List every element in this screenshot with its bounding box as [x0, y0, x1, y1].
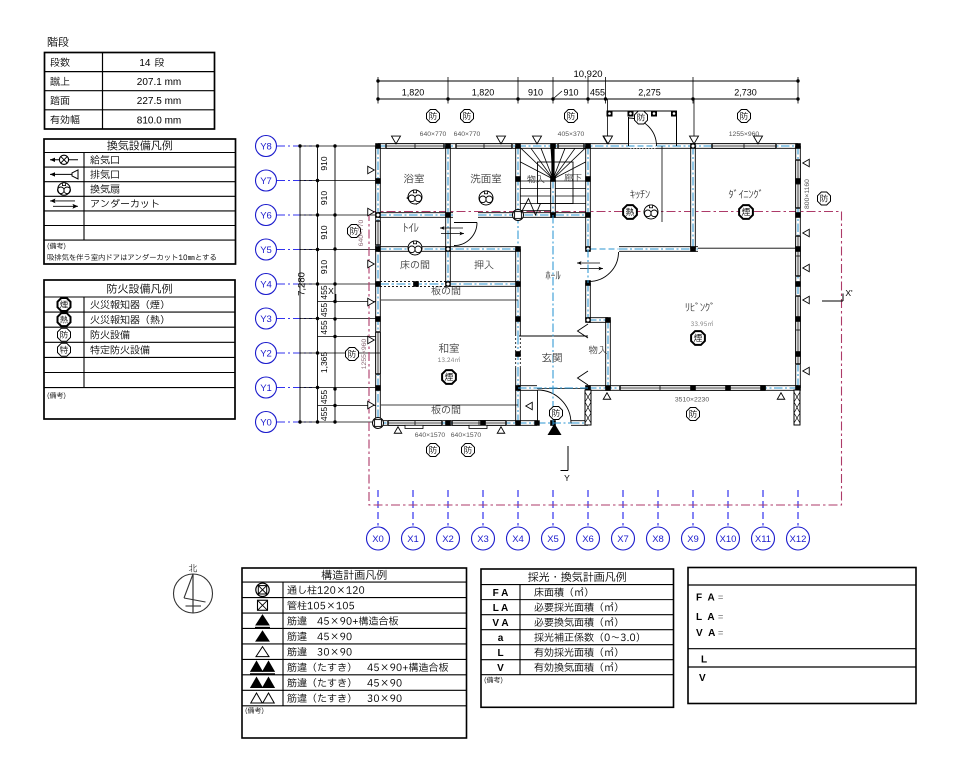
smoke detector dining — [739, 205, 753, 219]
washitsu genkan fusuma dotted — [515, 338, 517, 368]
svg-text:X12: X12 — [790, 534, 807, 545]
svg-text:Y6: Y6 — [260, 210, 272, 221]
ventilation legend table 換気設備凡例 — [44, 139, 236, 264]
undercut symbol アンダーカット — [50, 200, 75, 202]
svg-text:Y3: Y3 — [260, 314, 272, 325]
closet north wall — [588, 318, 608, 322]
svg-text:V A: V A — [696, 628, 717, 639]
room label キッチン — [630, 190, 650, 199]
remark 備考 ventilation — [48, 243, 66, 250]
tokonoma wall X2 — [446, 249, 450, 284]
hall kitchen door opening — [591, 247, 619, 252]
svg-text:L A: L A — [493, 603, 509, 614]
brace symbols 筋違 — [256, 615, 269, 625]
daylight-ventilation legend table 採光・換気計画凡例 — [481, 569, 674, 707]
svg-text:207.1 mm: 207.1 mm — [137, 77, 181, 88]
bath-washroom wall X2 — [446, 146, 450, 215]
brace markers top open down-triangles — [392, 136, 401, 144]
svg-text:X: X — [328, 286, 334, 296]
dimension drop lines with open arrows — [607, 99, 609, 136]
svg-text:X6: X6 — [582, 534, 594, 545]
exterior wall top Y8 — [378, 144, 798, 148]
kitchen dining wall X9 — [691, 146, 695, 249]
living area 33.95m2 — [691, 321, 713, 326]
svg-text:X3: X3 — [477, 534, 489, 545]
dining living boundary line — [698, 247, 798, 249]
svg-text:640×1570: 640×1570 — [451, 432, 482, 439]
structural plan legend table 構造計画凡例 — [242, 568, 467, 738]
genkan south wall stub — [518, 386, 537, 390]
svg-text:L: L — [701, 655, 707, 666]
svg-text:1,365: 1,365 — [319, 352, 329, 374]
stairs break zigzag — [521, 199, 541, 216]
svg-text:X9: X9 — [687, 534, 699, 545]
undercut arrow toilet — [440, 227, 463, 229]
svg-text:227.5 mm: 227.5 mm — [137, 96, 181, 107]
svg-text:910: 910 — [528, 88, 543, 98]
room label 物入 closet — [589, 346, 607, 355]
bath windows 640x770 — [386, 144, 444, 149]
washroom door fold mark — [407, 192, 417, 205]
svg-text:X': X' — [845, 288, 853, 298]
room label ダイニング — [729, 189, 761, 198]
svg-text:X8: X8 — [652, 534, 664, 545]
vent fan toilet — [408, 241, 422, 255]
room label 物入 stairs — [527, 175, 544, 183]
back door porch — [611, 110, 677, 112]
svg-text:1,820: 1,820 — [472, 88, 495, 98]
svg-text:X4: X4 — [512, 534, 524, 545]
genkan hall boundary line — [519, 335, 588, 337]
svg-text:910: 910 — [319, 260, 329, 274]
svg-text:14: 14 — [139, 58, 151, 69]
stairs treads — [521, 180, 552, 182]
second floor outline magenta dash-dot — [369, 212, 842, 506]
room label 玄関 — [542, 353, 562, 363]
svg-text:640×770: 640×770 — [454, 131, 481, 138]
svg-text:405×370: 405×370 — [558, 131, 585, 138]
stairs winder fan lines — [521, 148, 553, 179]
stair window 405x370 — [558, 144, 584, 149]
svg-text:640×770: 640×770 — [420, 131, 447, 138]
X grid bubbles X0-X12 — [377, 490, 379, 526]
hall east wall X6 lower — [586, 283, 590, 320]
stud-post symbol 管柱 — [258, 600, 268, 610]
room label 板の間 north — [431, 286, 460, 295]
svg-text:1255×960: 1255×960 — [361, 339, 368, 370]
svg-text:X7: X7 — [617, 534, 629, 545]
grid centerline dash entrance door gap — [537, 422, 571, 424]
calc table FA LA VA — [688, 568, 916, 704]
exterior wall right X12 — [796, 146, 800, 388]
svg-text:X11: X11 — [755, 534, 771, 545]
svg-text:F A: F A — [493, 588, 509, 599]
svg-text:X0: X0 — [372, 534, 384, 545]
svg-text:455: 455 — [590, 88, 605, 98]
exhaust symbol 排気口 — [50, 173, 72, 175]
top dimension line 10,920 — [378, 80, 798, 82]
undercut arrow hall — [577, 262, 600, 264]
washitsu area 13.24m2 — [438, 357, 460, 362]
Y grid bubbles Y0-Y8 — [256, 136, 277, 157]
svg-text:X2: X2 — [442, 534, 454, 545]
svg-text:Y8: Y8 — [260, 141, 272, 152]
heat detector kitchen — [623, 205, 637, 219]
room label トイレ — [404, 223, 418, 232]
svg-text:910: 910 — [319, 191, 329, 205]
entrance door arc — [538, 390, 572, 424]
tokonoma open boundary dotted — [380, 281, 448, 283]
svg-text:V: V — [699, 673, 706, 684]
stairwell void rectangle — [538, 162, 574, 204]
room label 押入 — [474, 260, 493, 269]
brace markers misc — [526, 402, 532, 410]
section marker Y — [567, 446, 569, 471]
grid centerline dash X5 through genkan — [552, 215, 554, 426]
svg-text:455: 455 — [319, 390, 329, 404]
remark 備考 structural — [246, 707, 264, 714]
grid centerline dash fusuma opening X4 — [517, 336, 519, 368]
vent fan symbol 換気扇 — [58, 183, 70, 195]
svg-text:455: 455 — [319, 320, 329, 334]
itanoma edge lines — [381, 299, 518, 301]
hatched porch posts — [585, 390, 591, 425]
entrance south wall Y0 — [518, 421, 537, 425]
grid centerline dash corridor opening X4 — [517, 215, 519, 249]
closet bifold marks — [578, 324, 589, 338]
svg-text:1,820: 1,820 — [402, 88, 425, 98]
svg-text:X1: X1 — [407, 534, 419, 545]
exterior wall left X0 — [376, 146, 380, 423]
east wall windows 800x1160 — [796, 160, 801, 208]
svg-text:2,730: 2,730 — [734, 88, 757, 98]
interior wall Y5 washitsu north — [378, 247, 518, 251]
fire shutter marks 防 — [427, 110, 440, 123]
stairs center wall X5 — [551, 148, 554, 180]
room label 浴室 — [404, 174, 424, 184]
exterior wall bottom washitsu Y0 — [378, 421, 518, 425]
svg-text:F A: F A — [696, 593, 716, 604]
washitsu south windows 640x1570 — [388, 421, 442, 426]
svg-text:810.0 mm: 810.0 mm — [137, 115, 181, 126]
west wall window 640x770 — [376, 221, 381, 245]
svg-text:910: 910 — [563, 88, 578, 98]
svg-text:V: V — [497, 663, 504, 674]
svg-text:640×1570: 640×1570 — [415, 432, 446, 439]
kitchen south wall Y5 — [619, 247, 698, 251]
svg-text:a: a — [498, 633, 504, 644]
svg-text:=: = — [718, 628, 723, 638]
section marker X prime — [822, 300, 843, 302]
back door arc — [629, 118, 657, 146]
stair spec table — [45, 53, 215, 130]
through-post symbols in plan — [513, 210, 524, 221]
living south window 3510x2230 — [620, 386, 765, 391]
svg-text:L: L — [497, 648, 503, 659]
grid centerline dash Y1 through genkan — [518, 387, 588, 389]
room label 床の間 — [400, 260, 429, 269]
exterior wall living south Y1 — [588, 386, 798, 390]
svg-text:X10: X10 — [720, 534, 737, 545]
through-post symbol 通し柱 — [256, 583, 269, 596]
svg-text:=: = — [718, 593, 723, 603]
toilet door arc — [454, 223, 477, 246]
smoke detector living — [691, 331, 705, 345]
svg-text:Y2: Y2 — [260, 348, 272, 359]
remark 備考 fire — [48, 392, 66, 399]
svg-text:L A: L A — [696, 612, 716, 623]
washitsu south window sill bumps — [405, 425, 423, 428]
svg-text:640×770: 640×770 — [358, 219, 365, 246]
brace markers east wall open left-triangles — [803, 159, 809, 167]
closet east wall — [606, 320, 610, 388]
vent fan bath — [408, 190, 422, 204]
room label リビング — [686, 302, 713, 311]
grid centerline dash X6 door gap — [587, 249, 589, 283]
svg-text:Y7: Y7 — [260, 176, 272, 187]
vent fan washroom — [479, 191, 493, 205]
svg-text:Y4: Y4 — [260, 279, 272, 290]
washroom window 640x770 — [456, 144, 512, 149]
svg-text:Y1: Y1 — [260, 383, 272, 394]
west wall window 1255x960 — [376, 332, 381, 374]
toilet east wall X2 — [446, 215, 450, 249]
hall east wall X6 upper — [586, 146, 590, 249]
room label ホール — [546, 271, 561, 280]
entrance west wall X4 — [516, 284, 520, 336]
svg-text:V A: V A — [492, 618, 508, 629]
svg-text:455: 455 — [319, 303, 329, 317]
smoke detector washitsu — [442, 370, 456, 384]
svg-text:Y0: Y0 — [260, 417, 272, 428]
left extension lines — [300, 145, 376, 147]
stair spec table title 階段 — [48, 37, 69, 47]
svg-text:3510×2230: 3510×2230 — [675, 397, 709, 404]
svg-text:455: 455 — [319, 407, 329, 421]
svg-text:Y: Y — [564, 473, 570, 483]
room label 和室 — [439, 343, 459, 353]
kitchen counter line — [661, 146, 663, 222]
top dimension chain — [378, 98, 798, 100]
interior wall Y6 corridor — [378, 213, 453, 217]
vent fan kitchen — [644, 205, 658, 219]
left sub dimension chain 455 — [334, 146, 336, 422]
svg-text:910: 910 — [319, 225, 329, 239]
dining window 1255x960 — [712, 144, 776, 149]
svg-text:X5: X5 — [547, 534, 559, 545]
left dimension chain 910 — [317, 146, 319, 422]
remark 備考 daylight — [485, 677, 503, 684]
entrance door hinge post — [534, 420, 539, 425]
fire-equipment legend table 防火設備凡例 — [44, 280, 235, 419]
left overall dimension 7,280 — [299, 146, 301, 422]
brace markers left open right-triangles — [368, 166, 374, 174]
compass north arrow 北 — [189, 564, 197, 572]
svg-text:910: 910 — [319, 156, 329, 170]
stairs west wall X4 — [516, 146, 520, 215]
kitchen back door opening — [629, 144, 657, 149]
small joint rings — [376, 213, 380, 217]
entrance mark filled triangle — [548, 424, 562, 436]
svg-text:800×1160: 800×1160 — [804, 179, 811, 209]
svg-text:Y5: Y5 — [260, 245, 272, 256]
kitchen hall door arc — [589, 252, 619, 282]
room label 板の間 south — [431, 405, 460, 414]
svg-text:2,275: 2,275 — [638, 88, 661, 98]
svg-text:=: = — [718, 612, 723, 622]
oshiire south wall Y4 — [448, 282, 518, 286]
room label 廊下 — [564, 173, 581, 181]
column posts — [375, 143, 381, 149]
room label 洗面室 — [471, 174, 502, 184]
supply-air symbol 給気口 — [50, 159, 78, 161]
